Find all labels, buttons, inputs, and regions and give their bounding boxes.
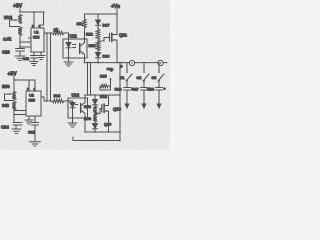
ground pin1 U1: [37, 52, 45, 60]
wire bottom supply rail: [14, 79, 35, 81]
wire U1 output pin3: [44, 32, 52, 34]
diode D19: [93, 122, 112, 132]
light arrows U11: [73, 44, 77, 49]
ground pin1 U2: [25, 116, 33, 124]
resistor R1 4.3k: [3, 27, 22, 42]
capacitor C27: [132, 82, 151, 92]
resistor R56 collector pull-up: [77, 14, 87, 39]
resistor R53: [84, 105, 97, 114]
ground LED cathode U12: [68, 118, 77, 127]
diode D16: [96, 51, 110, 63]
wire gate link Q13: [95, 109, 102, 114]
wire pin8 drop: [33, 12, 35, 28]
terminal J2: [158, 60, 163, 65]
LED inside U11: [66, 39, 71, 58]
resistor R3 640: [2, 102, 16, 111]
potentiometer R50: [2, 80, 16, 101]
wire Q21 drain riser: [116, 14, 118, 35]
resistor R51: [86, 29, 100, 40]
IC U2 555 timer: [26, 91, 41, 116]
wire pin4 drop: [40, 12, 44, 28]
diode D18: [93, 95, 107, 106]
LED inside U12: [68, 101, 75, 118]
wire tap to pin7: [20, 41, 31, 43]
wire RC node bottom: [13, 110, 15, 123]
wire gate link Q21: [98, 38, 110, 42]
wire to opto LED: [64, 33, 69, 39]
phototransistor U12: [81, 98, 85, 118]
wire ground bus 1: [85, 131, 120, 133]
capacitor C11: [23, 52, 38, 61]
wire Q21 source riser: [116, 40, 118, 63]
wire pin8 drop U2: [28, 80, 30, 91]
wire +Vs stub: [116, 9, 118, 14]
resistor R4 2k2: [44, 93, 68, 103]
capacitor C26: [115, 82, 134, 92]
wire/arrow to -V C28: [157, 90, 161, 108]
wire U12 collector riser: [84, 95, 86, 98]
wire ground bus 2: [73, 140, 120, 142]
diode D17: [96, 14, 110, 29]
ground under C11: [30, 62, 38, 66]
ground main: [30, 142, 41, 146]
resistor R54: [84, 114, 97, 123]
wire/arrow to -V C26: [125, 90, 129, 108]
capacitor C15: [28, 116, 39, 142]
switch S2: [137, 63, 150, 82]
wire +5V stub: [19, 9, 21, 13]
optocoupler U12: [68, 93, 88, 119]
wire RC node: [19, 36, 21, 49]
ground under C22: [15, 56, 25, 60]
wire U11 emitter route: [84, 58, 86, 63]
terminal J1: [129, 60, 134, 65]
ground LED cathode U11: [64, 58, 73, 66]
wire/arrow to -V C27: [142, 90, 146, 108]
wire top supply rail: [20, 11, 44, 13]
ground under C24: [12, 129, 21, 133]
wire long vertical link A: [46, 33, 48, 101]
capacitor C28: [147, 82, 166, 92]
switch S3: [152, 63, 165, 82]
wire tap to U2 pin7: [14, 110, 26, 112]
wire long vertical link B: [50, 33, 52, 101]
wire tap to pin6/2: [20, 46, 31, 48]
phototransistor U11: [80, 39, 85, 58]
wire +5V stub bottom: [13, 77, 15, 81]
resistor R55: [100, 75, 111, 91]
capacitor C24: [1, 123, 22, 130]
resistor R52: [89, 41, 100, 51]
wire output bus: [85, 62, 168, 64]
switch S1: [120, 63, 133, 82]
wire Q13 drain riser: [108, 95, 110, 106]
wire tap to U2 pin6/2: [14, 114, 26, 116]
capacitor C22: [2, 49, 25, 57]
IC U1 555 timer: [31, 28, 44, 52]
MOSFET Q21: [110, 33, 128, 42]
wire bottom driver rail: [85, 94, 121, 96]
wire +Vs rail: [85, 13, 118, 15]
wire vertical drop D: [90, 63, 92, 95]
wire pin4 drop U2: [34, 80, 36, 91]
wire output riser right: [119, 63, 121, 141]
wire vertical drop C: [87, 63, 89, 95]
resistor R2 2k: [52, 28, 64, 35]
wire U12 emitter to bus: [84, 118, 86, 132]
wire Q13 source riser: [108, 111, 110, 132]
optocoupler U11: [63, 34, 87, 59]
light arrows U12: [76, 104, 79, 106]
pin stub U1 left: [29, 37, 32, 39]
node +Vp arrow: [107, 68, 114, 91]
wire U2 output pin3: [41, 97, 44, 101]
MOSFET Q13: [102, 104, 122, 113]
